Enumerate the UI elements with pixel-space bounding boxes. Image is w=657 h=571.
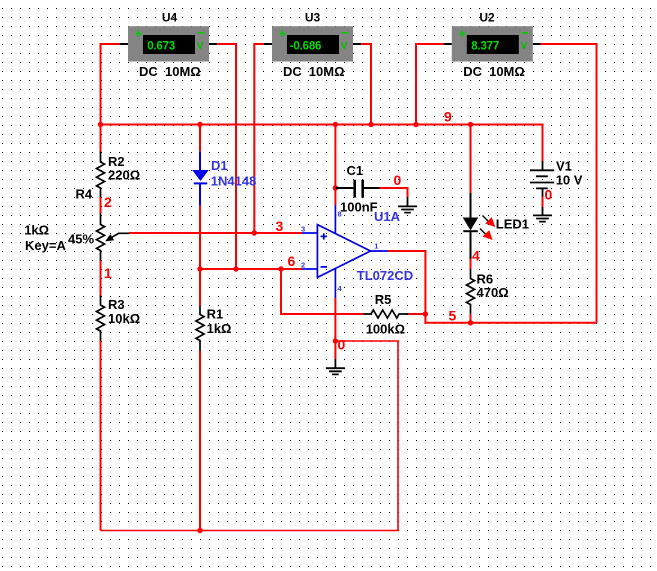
svg-text:1N4148: 1N4148 bbox=[211, 173, 257, 188]
R4 wiper arrowhead bbox=[105, 234, 114, 241]
junction node9-U2L bbox=[413, 122, 418, 127]
wire pin8 column bbox=[334, 125, 336, 206]
wire pin4 to ground node 0 bbox=[334, 298, 336, 359]
wire left rail mid segments bbox=[100, 197, 102, 531]
wire U2 left down to bus bbox=[416, 44, 444, 125]
ground near C1 bbox=[398, 197, 417, 213]
svg-text:TL072CD: TL072CD bbox=[357, 268, 413, 283]
wire D1 branch top bbox=[199, 125, 201, 152]
svg-text:V1: V1 bbox=[556, 159, 572, 174]
LED LED1 bbox=[463, 193, 496, 259]
junction node9-D1 bbox=[197, 122, 202, 127]
svg-text:V: V bbox=[197, 41, 204, 52]
svg-text:R5: R5 bbox=[375, 292, 392, 307]
potentiometer R4 bbox=[97, 214, 130, 261]
svg-text:100kΩ: 100kΩ bbox=[366, 321, 405, 336]
wire node 6 row (D1 junction to op-amp -) bbox=[200, 268, 302, 270]
svg-text:8: 8 bbox=[338, 210, 342, 219]
svg-text:10 V: 10 V bbox=[556, 172, 583, 187]
wire V1 bottom to ground bbox=[542, 197, 544, 208]
wire U3 right down to bus bbox=[361, 44, 371, 125]
svg-text:10kΩ: 10kΩ bbox=[108, 311, 140, 326]
svg-text:6: 6 bbox=[288, 253, 296, 269]
svg-text:1: 1 bbox=[104, 265, 112, 281]
wire D1 to R1 segment bbox=[199, 205, 201, 530]
junction node6 feedback bbox=[278, 266, 283, 271]
svg-text:3: 3 bbox=[276, 218, 284, 234]
resistor R2 bbox=[97, 152, 105, 198]
resistor R1 bbox=[196, 306, 204, 351]
svg-text:R3: R3 bbox=[108, 297, 125, 312]
junction bottom R1 bbox=[197, 528, 202, 533]
diode D1 bbox=[192, 151, 209, 205]
svg-text:U1A: U1A bbox=[374, 209, 401, 224]
wire LED branch top bbox=[470, 125, 472, 194]
wire C1 right to ground bbox=[380, 188, 408, 197]
resistor R6 bbox=[467, 269, 475, 314]
multimeter U2 bbox=[444, 26, 541, 61]
wire node 3 row (pot wiper to op-amp +) bbox=[129, 232, 302, 234]
svg-text:100nF: 100nF bbox=[340, 199, 378, 214]
svg-text:2: 2 bbox=[104, 194, 112, 210]
svg-text:D1: D1 bbox=[211, 158, 228, 173]
svg-text:0: 0 bbox=[545, 187, 553, 203]
svg-text:220Ω: 220Ω bbox=[108, 168, 140, 183]
multimeter U4 bbox=[120, 26, 217, 61]
wire R5 right to output node bbox=[408, 313, 425, 315]
resistor R3 bbox=[97, 296, 105, 342]
svg-text:V: V bbox=[521, 41, 528, 52]
svg-text:2: 2 bbox=[301, 261, 305, 270]
svg-text:5: 5 bbox=[449, 307, 457, 323]
wire bottom rail bbox=[101, 341, 399, 531]
svg-text:LED1: LED1 bbox=[496, 216, 529, 231]
wire U4 left to left rail bbox=[101, 44, 121, 152]
svg-text:0: 0 bbox=[338, 337, 346, 353]
wire U3 left down to node 3 bbox=[254, 44, 264, 233]
wire feedback drop to R5 bbox=[281, 269, 364, 314]
junction node6 D1 bbox=[197, 266, 202, 271]
svg-text:DC10MΩ: DC10MΩ bbox=[139, 64, 201, 79]
capacitor C1 bbox=[335, 180, 379, 198]
op-amp U1A bbox=[302, 205, 388, 298]
svg-text:9: 9 bbox=[444, 109, 452, 125]
junction node9-U3R bbox=[368, 122, 373, 127]
svg-text:0.673: 0.673 bbox=[147, 41, 175, 53]
svg-text:U2: U2 bbox=[479, 11, 495, 25]
ground below op-amp bbox=[326, 359, 345, 374]
svg-text:R4: R4 bbox=[76, 187, 93, 202]
wire node 4 (LED to R6) bbox=[470, 259, 472, 269]
wire U2 right down to node 5 bbox=[541, 44, 597, 323]
resistor R5 bbox=[364, 310, 409, 318]
junction node5 R6 bbox=[468, 320, 473, 325]
wire U4 right down to node 6 bbox=[217, 44, 236, 269]
svg-text:-0.686: -0.686 bbox=[290, 41, 321, 53]
svg-text:1kΩ: 1kΩ bbox=[207, 321, 232, 336]
svg-text:DC10MΩ: DC10MΩ bbox=[463, 64, 525, 79]
svg-text:DC10MΩ: DC10MΩ bbox=[283, 64, 345, 79]
svg-text:1kΩ: 1kΩ bbox=[24, 223, 49, 238]
svg-text:U3: U3 bbox=[305, 11, 321, 25]
svg-text:470Ω: 470Ω bbox=[477, 285, 509, 300]
junction node6 U4 bbox=[233, 266, 238, 271]
svg-text:8.377: 8.377 bbox=[471, 41, 499, 53]
junction node3 U3 tap bbox=[252, 230, 257, 235]
svg-text:R1: R1 bbox=[207, 307, 224, 322]
svg-text:V: V bbox=[341, 41, 348, 52]
svg-text:1: 1 bbox=[374, 242, 378, 251]
wire node 9 bus bbox=[101, 125, 543, 162]
wire R6 bottom to node 5 bbox=[470, 314, 472, 323]
svg-text:C1: C1 bbox=[347, 163, 364, 178]
svg-text:0: 0 bbox=[394, 172, 402, 188]
ground below V1 bbox=[533, 207, 552, 222]
junction ground node0 bbox=[333, 338, 338, 343]
battery V1 bbox=[530, 161, 554, 197]
junction R5 output bbox=[423, 311, 428, 316]
svg-text:45%: 45% bbox=[68, 232, 94, 247]
junction C1 tap bbox=[333, 185, 338, 190]
svg-text:Key=A: Key=A bbox=[25, 238, 66, 253]
junction node9-pin8 bbox=[333, 122, 338, 127]
wire op-amp output down and node 5 row bbox=[388, 251, 597, 323]
multimeter U3 bbox=[264, 26, 361, 61]
svg-text:3: 3 bbox=[301, 225, 305, 234]
junction node9-LED bbox=[468, 122, 473, 127]
svg-text:4: 4 bbox=[472, 248, 480, 264]
svg-text:U4: U4 bbox=[162, 11, 178, 25]
junction node9-left bbox=[98, 122, 103, 127]
